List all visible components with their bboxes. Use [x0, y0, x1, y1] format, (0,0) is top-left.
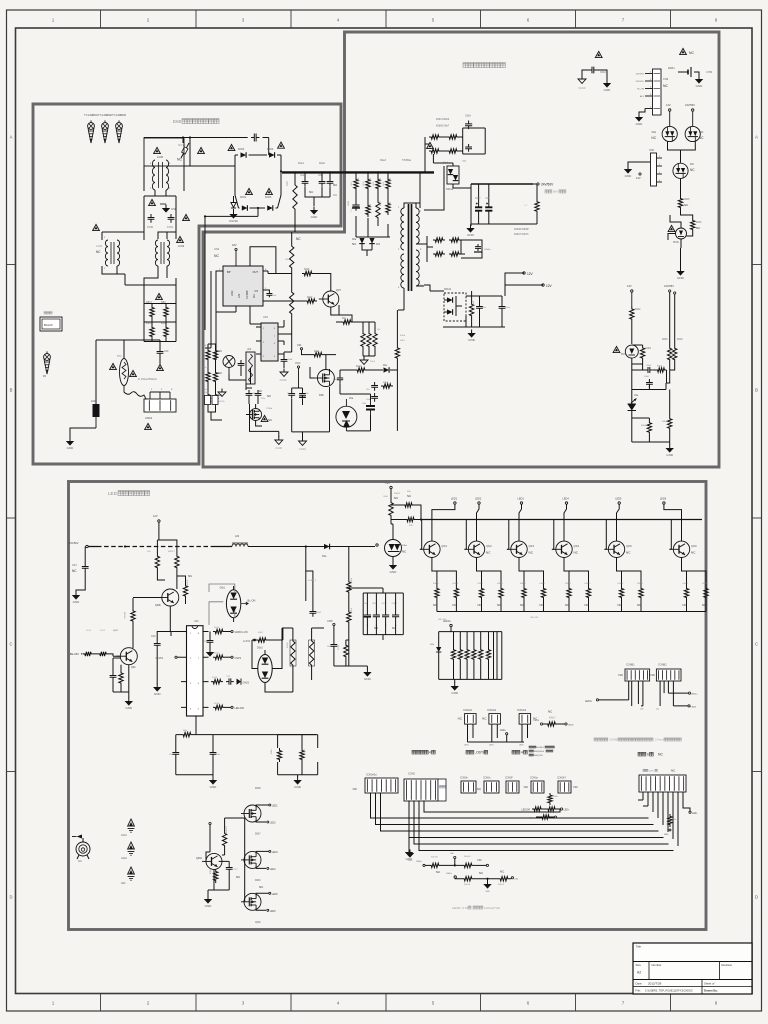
terminal LED conb1: [585, 699, 644, 711]
terminal LED-DR: [443, 620, 452, 627]
svg-text:Z0a: Z0a: [349, 397, 354, 400]
cap C0clb: [366, 393, 378, 402]
svg-text:K0b6: K0b6: [696, 222, 702, 224]
svg-text:C0Ph: C0Ph: [327, 620, 334, 623]
svg-text:NC: NC: [258, 389, 262, 393]
svg-text:A2: A2: [637, 971, 641, 975]
resistor K1s4: [449, 252, 461, 256]
cap C0v2: [299, 390, 309, 399]
svg-text:C0b3a: C0b3a: [484, 249, 491, 251]
svg-text:K0b0: K0b0: [370, 177, 372, 183]
svg-text:NC: NC: [626, 551, 631, 555]
svg-text:LED3: LED3: [272, 852, 278, 854]
svg-text:NC: NC: [683, 603, 687, 607]
svg-text:CONB2: CONB2: [609, 738, 619, 742]
svg-text:D 15AL25WAC: D 15AL25WAC: [138, 377, 157, 381]
svg-text:K0b00 K0b7: K0b00 K0b7: [436, 125, 450, 128]
resistor bank3: [361, 328, 381, 350]
svg-text:K0b31: K0b31: [458, 654, 460, 659]
title block: [633, 943, 752, 994]
svg-text:K0b02: K0b02: [394, 493, 401, 495]
right low loop: [278, 735, 318, 777]
gray values bank: [351, 181, 385, 212]
diode ZD01: [352, 238, 381, 246]
sgnd control b: [299, 438, 307, 452]
labels groups: [412, 746, 663, 757]
wire bus 2: [248, 546, 375, 548]
svg-text:LED2: LED2: [270, 823, 276, 825]
gnd CN2: [638, 114, 640, 118]
svg-text:C0b7: C0b7: [392, 603, 398, 605]
svg-text:U03: U03: [263, 315, 268, 319]
svg-text:C0b7: C0b7: [475, 198, 481, 200]
svg-text:KD01: KD01: [240, 196, 247, 199]
svg-text:120mA(7)20: 120mA(7)20: [484, 906, 500, 910]
svg-text:TX050a: TX050a: [402, 159, 411, 162]
cap bridge top series: [251, 134, 259, 142]
svg-text:GND: GND: [625, 174, 633, 178]
gnd right loop: [297, 777, 299, 781]
caps row C0ab: [246, 389, 271, 400]
svg-text:Drawn By:: Drawn By:: [704, 989, 718, 993]
sgnd left: [217, 389, 226, 404]
svg-text:C04: C04: [297, 344, 302, 347]
svg-text:C0b4: C0b4: [287, 359, 293, 361]
warning tri LC02: [177, 236, 184, 242]
svg-text:KB13: KB13: [146, 322, 153, 325]
gray note CONB2: [594, 738, 681, 742]
warning NC m2: [680, 48, 695, 55]
svg-text:K0b5: K0b5: [380, 177, 382, 183]
diode KD01: [240, 188, 252, 210]
svg-text:K0b3 K0b02: K0b3 K0b02: [436, 118, 450, 121]
resistor K0 conb0: [664, 814, 677, 836]
cap C007: [475, 184, 482, 224]
cap C0low2: [210, 749, 221, 758]
dual diode Z0led circle: [385, 531, 408, 562]
svg-text:LED5: LED5: [489, 745, 494, 747]
gnd bus small: [406, 850, 414, 863]
warning tri LC01: [93, 224, 100, 230]
choke LC00: [144, 138, 184, 190]
svg-text:L00: L00: [235, 535, 240, 538]
svg-text:K0b13: K0b13: [565, 583, 572, 585]
gnd Z0led: [392, 562, 394, 566]
svg-text:LED+: LED+: [416, 861, 422, 863]
svg-text:NC: NC: [394, 496, 398, 500]
svg-text:D0b: D0b: [319, 393, 324, 397]
wires TL431: [632, 390, 670, 443]
resistor K0s3: [429, 149, 441, 153]
svg-text:LED6: LED6: [270, 911, 276, 913]
svg-text:GND: GND: [604, 88, 612, 92]
svg-text:18V: 18V: [232, 243, 237, 247]
svg-text:K0b7: K0b7: [380, 200, 382, 206]
warning tri 1: [154, 147, 161, 153]
svg-text:LEDb: LEDb: [568, 725, 574, 727]
svg-text:GND: GND: [468, 338, 476, 342]
varistor RV01: [177, 143, 189, 162]
wire L02 up: [95, 340, 97, 404]
pins U03: [256, 320, 292, 360]
wire CN2 gnd: [639, 109, 645, 115]
svg-text:AGND: AGND: [280, 379, 287, 382]
svg-text:U0b: U0b: [247, 349, 252, 351]
svg-text:GND: GND: [636, 122, 644, 126]
dual diode D001: [443, 162, 459, 191]
svg-text:TY-140RM3: TY-140RM3: [112, 113, 126, 117]
resistor K0low1: [271, 748, 282, 762]
svg-text:24V/56V: 24V/56V: [664, 284, 674, 288]
K0b17 row: [534, 710, 575, 727]
svg-text:NC: NC: [500, 870, 504, 874]
svg-text:ADJ: ADJ: [640, 95, 644, 98]
svg-text:NC: NC: [478, 858, 482, 862]
svg-text:CY00: CY00: [147, 226, 154, 229]
gnd below IC: [212, 777, 214, 781]
connector CON2: [404, 773, 446, 802]
gnd LEDDR: [454, 683, 456, 687]
svg-text:File:: File:: [636, 989, 642, 993]
svg-text:KGND: KGND: [229, 219, 239, 223]
gnd CN0: [627, 166, 629, 170]
svg-text:4: 4: [659, 180, 660, 182]
gnd L02: [69, 438, 71, 442]
cap C021: [644, 376, 653, 388]
label 12V CN0: [636, 173, 641, 180]
label C0d: [266, 290, 276, 297]
resistor K0b9h: [381, 382, 393, 388]
cap C02b: [462, 144, 472, 163]
transistor Q0b2 column: [464, 498, 503, 612]
LED row rail: [437, 611, 706, 613]
snubber loop: [425, 128, 485, 154]
bus junction dots: [294, 171, 389, 173]
terminal 24V fb: [664, 284, 676, 294]
wire C03 gnd: [76, 572, 85, 593]
terminal 12V opto: [666, 103, 671, 111]
svg-text:1: 1: [659, 156, 660, 158]
svg-text:K0b4: K0b4: [646, 348, 652, 350]
svg-text:K0b1b: K0b1b: [464, 884, 471, 886]
sgnd control a: [275, 437, 283, 451]
svg-text:GND: GND: [390, 570, 398, 574]
diode KD03: [265, 188, 273, 210]
svg-text:CS: CS: [254, 289, 258, 293]
svg-text:Q0b4: Q0b4: [574, 546, 580, 548]
svg-text:EMI: EMI: [173, 119, 181, 124]
junction bus: [124, 545, 126, 547]
wire sec2: [424, 236, 430, 291]
svg-text:K0b15: K0b15: [683, 583, 690, 585]
svg-text:Q0b3: Q0b3: [529, 546, 535, 548]
svg-text:K0b7: K0b7: [400, 340, 406, 342]
svg-text:K0b20: K0b20: [452, 583, 459, 585]
svg-text:NC: NC: [296, 237, 301, 241]
connector CON0F: [505, 778, 519, 794]
warning tri m1: [595, 51, 602, 57]
res row bottom2: [446, 870, 518, 894]
scr Q0s: [223, 356, 235, 375]
svg-text:K011: K011: [214, 627, 220, 629]
resistor K009: [347, 577, 353, 595]
rail control mid: [292, 399, 330, 438]
warning tri 2: [198, 147, 205, 153]
resistor K0a1: [312, 351, 324, 357]
svg-text:B66(8)5B.6: B66(8)5B.6: [534, 751, 545, 753]
svg-text:LED4: LED4: [270, 869, 276, 871]
rail clamp: [346, 415, 370, 431]
svg-text:D: D: [9, 895, 12, 900]
transistor Q0b4 column: [552, 498, 591, 612]
svg-text:PC0b: PC0b: [673, 242, 679, 244]
resistor K0s4: [447, 149, 459, 153]
cap C12b: [499, 303, 511, 312]
terminal 12V fb: [627, 284, 633, 292]
wires vcc: [284, 334, 303, 390]
mosfet D0b7: [241, 804, 278, 836]
warning tri bus: [427, 142, 434, 148]
LED driver section box: [69, 482, 707, 930]
svg-text:OUT: OUT: [253, 270, 259, 274]
svg-text:K0b0: K0b0: [370, 361, 376, 363]
wires optos join: [668, 142, 696, 163]
dual diode Z01: [336, 397, 357, 431]
connector CN0: [649, 149, 662, 186]
pins U02: [218, 247, 292, 327]
svg-text:NC: NC: [520, 603, 524, 607]
svg-text:A: A: [755, 135, 758, 140]
svg-text:K0b3: K0b3: [641, 425, 647, 427]
svg-text:LC02: LC02: [178, 244, 185, 248]
wires K0a1: [302, 350, 337, 369]
svg-text:NC: NC: [651, 673, 656, 677]
svg-text:3: 3: [659, 172, 660, 174]
resistor K0c3: [355, 366, 367, 372]
svg-text:LED2: LED2: [475, 498, 482, 501]
svg-text:NC: NC: [96, 250, 101, 254]
svg-text:2: 2: [650, 79, 651, 81]
resistor K12a: [469, 300, 475, 319]
svg-text:12V: 12V: [627, 284, 632, 288]
svg-text:GND: GND: [125, 706, 133, 710]
resistor K0r1: [354, 177, 360, 191]
connector CONB0: [639, 769, 686, 793]
svg-text:GDRVx-ON: GDRVx-ON: [235, 631, 248, 634]
choke LC01: [96, 237, 120, 270]
svg-text:CON0A0a: CON0A0a: [366, 774, 377, 777]
resistor K0r4: [386, 177, 392, 191]
wires PC0b: [668, 215, 693, 248]
svg-text:C0b0: C0b0: [646, 365, 652, 367]
cap C12a: [476, 303, 487, 312]
resistor K0fb1: [641, 420, 652, 435]
gnd m: [598, 70, 612, 92]
transformer TX secondary: [416, 208, 423, 287]
resistor K0s1: [429, 135, 441, 139]
wires left column: [208, 338, 222, 420]
svg-text:NC: NC: [214, 254, 219, 258]
warning tri 4: [183, 214, 190, 220]
svg-text:12V: 12V: [527, 272, 534, 276]
svg-text:NC: NC: [268, 418, 272, 422]
resistor KR017: [168, 551, 179, 571]
svg-text:K0b14: K0b14: [618, 583, 625, 585]
svg-text:NC: NC: [407, 494, 411, 498]
cap C03: [72, 547, 89, 574]
svg-text:K010: K010: [86, 630, 92, 632]
wires 24V fb twin: [670, 292, 675, 345]
svg-text:K0b9: K0b9: [351, 577, 353, 583]
label U02: [214, 247, 220, 258]
caps bank frame: [349, 588, 404, 640]
resistor K0r7: [376, 198, 382, 222]
label LED section: [108, 491, 150, 496]
svg-text:NC: NC: [585, 603, 589, 607]
svg-text:GND2: GND2: [243, 682, 250, 685]
svg-text:nCB1_2: nCB1_2: [308, 580, 317, 582]
IC U00: [187, 620, 204, 716]
svg-text:K014: K014: [214, 703, 220, 705]
svg-text:4: 4: [521, 751, 523, 755]
svg-text:12V: 12V: [666, 103, 671, 107]
terminal 24V LED: [69, 541, 89, 548]
svg-text:D0a: D0a: [652, 131, 657, 134]
wire bus up right: [560, 800, 648, 812]
svg-text:Title: Title: [636, 945, 642, 949]
svg-text:BL-ON: BL-ON: [70, 652, 79, 656]
BL-ON input: [70, 652, 120, 657]
connector CON0a2: [524, 778, 544, 794]
svg-text:LC0b: LC0b: [96, 244, 103, 248]
svg-text:KD04: KD04: [267, 148, 274, 151]
cap CY00: [147, 214, 154, 229]
svg-text:G1b2: G1b2: [121, 858, 127, 860]
resistor K0c h: [341, 318, 353, 324]
wires K009: [348, 547, 350, 641]
svg-text:Q0b6: Q0b6: [691, 546, 697, 548]
gnd C03: [75, 592, 77, 596]
svg-text:C0b1: C0b1: [348, 200, 350, 206]
svg-text:C03: C03: [72, 564, 77, 567]
resistor KR019: [123, 608, 135, 624]
mosfet D0b0: [241, 850, 278, 889]
svg-text:GND: GND: [73, 600, 81, 604]
connector CONB1: [619, 664, 650, 682]
svg-text:D0b6: D0b6: [255, 787, 261, 790]
main section box: [203, 32, 719, 467]
wire to gnd chain: [680, 248, 682, 268]
svg-text:K012: K012: [100, 630, 106, 632]
svg-text:C011: C011: [338, 644, 340, 650]
svg-text:24V/56V: 24V/56V: [636, 81, 645, 83]
res row bottom1: [416, 853, 488, 874]
long bus wires: [371, 793, 674, 851]
cap C0bled: [327, 626, 337, 650]
wires D02: [310, 367, 330, 432]
row2 K012: [213, 653, 242, 660]
wires mos column: [244, 814, 245, 902]
symbol G1b1: [121, 819, 134, 837]
svg-text:NC: NC: [699, 136, 704, 140]
svg-text:NC: NC: [689, 51, 694, 55]
svg-text:C0a: C0a: [300, 175, 305, 177]
left resistor column r2: [203, 367, 222, 384]
cap CE10: [348, 200, 360, 211]
connector CON0 c: [477, 778, 499, 794]
cap C17b: [214, 861, 238, 890]
inductor L00: [232, 535, 248, 547]
svg-text:KGNDb: KGNDb: [217, 401, 225, 403]
svg-text:Sheet of: Sheet of: [704, 982, 715, 986]
svg-text:K0B1b: K0B1b: [210, 868, 212, 874]
svg-text:K0b2: K0b2: [271, 748, 273, 754]
transistor Q0blon: [116, 648, 137, 669]
mosfet D02: [314, 370, 334, 398]
cap C02: [151, 632, 181, 685]
gnd CON2: [405, 838, 413, 862]
svg-text:4: 4: [650, 94, 651, 96]
svg-text:BP: BP: [227, 270, 231, 274]
svg-text:LC00: LC00: [157, 155, 164, 159]
gnd 12V sec: [471, 330, 473, 334]
row3 K013: [211, 676, 250, 685]
svg-text:C0b: C0b: [486, 198, 491, 200]
svg-text:24V/56V: 24V/56V: [685, 103, 695, 107]
gnd Q019: [204, 890, 214, 908]
svg-text:NC: NC: [702, 603, 706, 607]
svg-text:CONB1: CONB1: [626, 664, 635, 667]
resistor KB00: [161, 301, 168, 319]
svg-text:K0a3: K0a3: [380, 159, 386, 162]
resistor R0b7: [302, 269, 314, 276]
wires Z0 row: [391, 505, 421, 540]
svg-text:NC: NC: [574, 551, 579, 555]
wire Q01 gate: [344, 315, 352, 322]
svg-text:NC: NC: [619, 673, 624, 677]
cap C020: [645, 365, 653, 373]
IC U03: [261, 315, 278, 361]
svg-text:K0b1B: K0b1B: [431, 857, 438, 859]
resistor K0b h1: [403, 491, 414, 507]
LEDDR box: [439, 627, 502, 683]
svg-text:680K: 680K: [351, 181, 353, 186]
svg-text:K0a3: K0a3: [356, 366, 362, 368]
svg-text:K0b23: K0b23: [585, 583, 592, 585]
resistor K006: [662, 416, 672, 431]
svg-text:NC: NC: [433, 603, 437, 607]
svg-text:L02: L02: [91, 399, 96, 403]
svg-text:K0b07 K0b7b: K0b07 K0b7b: [514, 233, 529, 236]
svg-text:K0b10: K0b10: [433, 583, 440, 585]
diode KD02: [228, 144, 246, 157]
svg-text:NC: NC: [540, 603, 544, 607]
svg-text:CYB0: CYB0: [706, 71, 713, 74]
gnd chain: [680, 268, 682, 272]
svg-text:K0b30: K0b30: [451, 654, 453, 659]
svg-text:D0b: D0b: [376, 244, 381, 246]
svg-text:Number: Number: [652, 963, 662, 967]
svg-text:K0b35: K0b35: [486, 654, 488, 659]
label EMI section: [173, 119, 219, 124]
gnd mid choke: [160, 204, 177, 213]
wire D0b1 gate: [209, 584, 235, 625]
svg-text:K0b7: K0b7: [657, 366, 663, 368]
wire to gnd L02: [70, 428, 96, 438]
transistor Q07: [319, 288, 342, 307]
diode D0c3: [383, 365, 389, 373]
resistor R0low: [181, 730, 193, 737]
